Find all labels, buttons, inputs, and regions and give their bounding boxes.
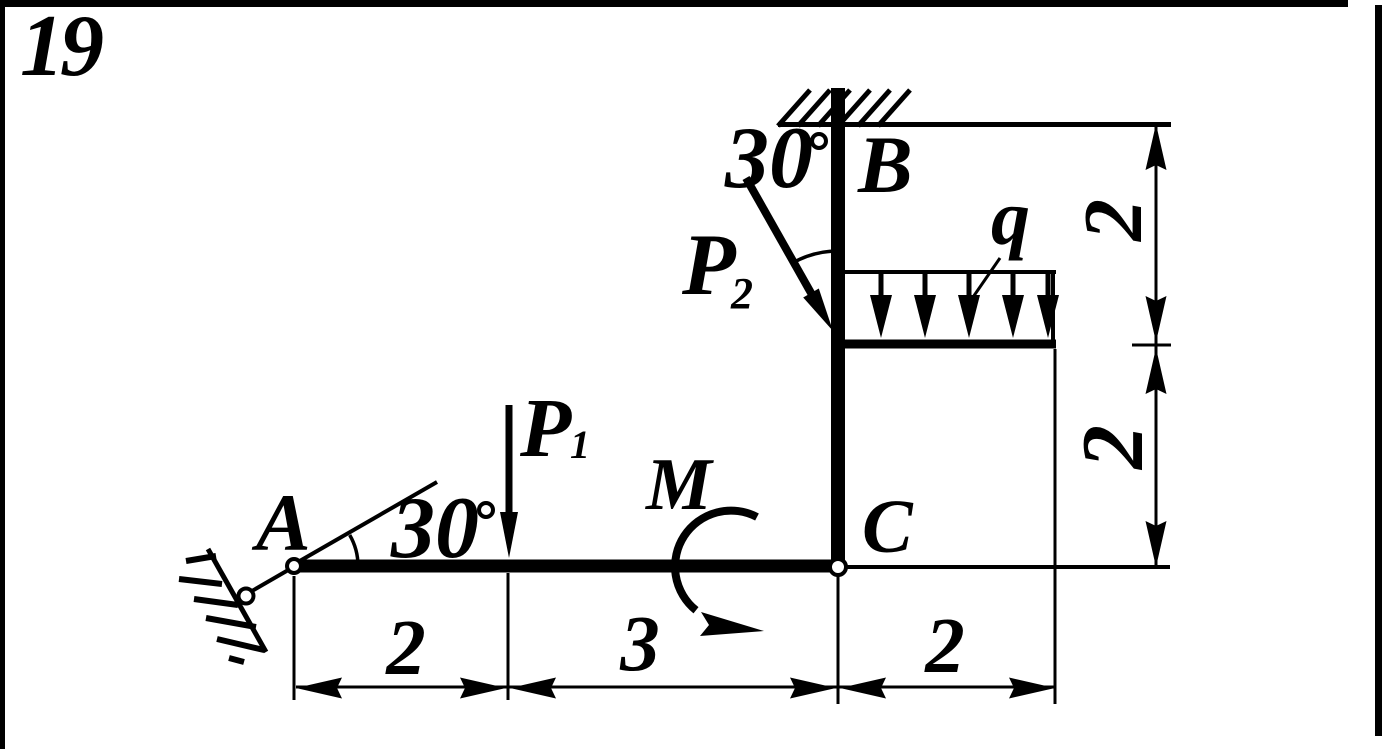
svg-text:q: q	[991, 174, 1030, 261]
svg-text:A: A	[251, 477, 311, 568]
svg-text:2: 2	[730, 269, 753, 318]
svg-text:C: C	[862, 485, 914, 569]
svg-text:2: 2	[1065, 425, 1162, 471]
svg-text:2: 2	[1067, 199, 1160, 243]
svg-text:B: B	[857, 119, 913, 210]
svg-text:19: 19	[20, 0, 103, 95]
svg-text:30: 30	[724, 110, 813, 207]
svg-text:P: P	[519, 382, 572, 475]
svg-text:2: 2	[385, 605, 426, 692]
svg-text:P: P	[681, 217, 737, 314]
svg-text:2: 2	[924, 603, 965, 690]
svg-text:1: 1	[570, 422, 590, 467]
svg-text:30: 30	[390, 480, 479, 577]
svg-text:M: M	[645, 444, 714, 526]
svg-text:3: 3	[619, 601, 660, 688]
